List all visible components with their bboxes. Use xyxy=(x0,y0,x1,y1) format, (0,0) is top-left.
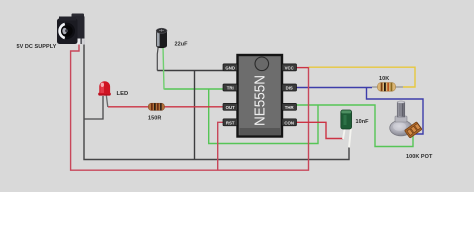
svg-text:10K: 10K xyxy=(379,76,389,82)
wire: black LED cathode to ground xyxy=(84,96,103,119)
svg-text:10nF: 10nF xyxy=(356,119,370,125)
wire: blue branch to pot right terminal xyxy=(367,88,424,135)
wire: green loop TRI to THR xyxy=(209,89,318,144)
LED D1 xyxy=(98,81,111,107)
wire: green cap+ to TRI horizontal xyxy=(164,88,224,90)
svg-text:DIS: DIS xyxy=(286,86,293,91)
svg-text:TRI: TRI xyxy=(227,86,234,91)
wire: yellow VCC rail to 10K right lead xyxy=(309,67,416,87)
svg-text:5V DC SUPPLY: 5V DC SUPPLY xyxy=(17,44,57,50)
wire: green 22uF pos lead over black xyxy=(163,46,164,90)
wire: red VCC stub xyxy=(297,67,309,69)
wire: black 22uF neg lead xyxy=(157,46,158,71)
wire: black GND drop to rail xyxy=(194,71,196,160)
pin THR (6) xyxy=(282,103,297,110)
wire: red CON to 10nF xyxy=(297,122,344,138)
svg-text:100K POT: 100K POT xyxy=(406,154,433,160)
pin TRI (2) xyxy=(223,84,238,91)
resistor R2 10K xyxy=(372,83,403,92)
wire: red RST to rail xyxy=(218,122,224,170)
wire: red supply loop jack to VCC xyxy=(71,40,309,170)
pin GND (1) xyxy=(223,64,238,71)
pin CON (5) xyxy=(282,119,297,126)
capacitor C2 10nF xyxy=(341,110,352,148)
svg-text:VCC: VCC xyxy=(285,65,294,70)
capacitor C1 22uF xyxy=(156,28,167,48)
wire: black GND pin to cap xyxy=(157,70,223,72)
wire: green THR to pot wiper xyxy=(297,105,414,147)
barrel jack J1 xyxy=(57,14,85,45)
svg-text:CON: CON xyxy=(284,120,294,125)
svg-text:THR: THR xyxy=(285,105,295,110)
wire: black jack to ground rail and 10nF xyxy=(84,40,349,160)
svg-text:NE555N: NE555N xyxy=(253,75,269,126)
wire: blue DIS to 10K left lead xyxy=(297,87,373,89)
IC U1 NE555N xyxy=(238,55,283,137)
svg-text:LED: LED xyxy=(117,91,129,97)
wire: red OUT to LED anode xyxy=(108,106,224,108)
pin OUT (3) xyxy=(223,103,238,110)
svg-text:22uF: 22uF xyxy=(175,42,189,48)
resistor R1 150R xyxy=(148,103,164,110)
svg-text:RST: RST xyxy=(226,120,235,125)
potentiometer VR1 100K xyxy=(390,101,422,138)
svg-text:GND: GND xyxy=(225,65,235,70)
svg-text:150R: 150R xyxy=(148,116,161,122)
pin RST (4) xyxy=(223,119,238,126)
pin VCC (8) xyxy=(282,64,297,71)
pin DIS (7) xyxy=(282,84,297,91)
svg-text:OUT: OUT xyxy=(226,105,235,110)
